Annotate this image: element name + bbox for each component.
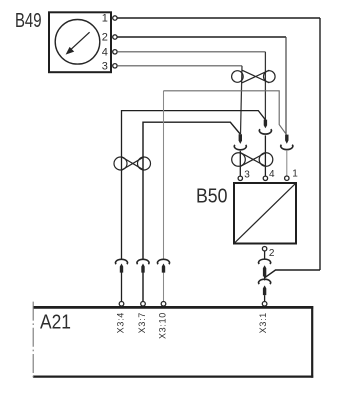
A21 terminal X3:10 xyxy=(161,302,166,307)
svg-text:X3:10: X3:10 xyxy=(157,312,167,339)
component A21 (control unit box) xyxy=(33,306,313,378)
B49 pin 3 number xyxy=(102,60,108,72)
B50 pin 1 terminal xyxy=(285,176,289,180)
A21 left edge (dash-dot continuation line) xyxy=(32,302,34,378)
connector above B50 pin 4 (pin arrow down) xyxy=(264,120,267,129)
connector at A21 X3:7 (socket arc) xyxy=(137,259,149,264)
wire from pin4 socket to B50 pin 4 xyxy=(264,135,266,176)
wire B50 pin2 down to connector xyxy=(264,251,266,260)
X3:1 upper connector socket arc xyxy=(259,259,271,264)
B50 diagonal xyxy=(235,184,296,243)
terminal label X3:4 xyxy=(115,312,125,333)
A21 terminal X3:7 xyxy=(141,302,146,307)
connector at A21 X3:4 (pin arrow up) xyxy=(120,264,123,273)
label B49 xyxy=(15,10,42,32)
wire bottom run of pin1 circuit with diagonal into X3:1 joint xyxy=(265,270,320,278)
wire X3:4 lower vertical to A21 terminal xyxy=(121,272,123,301)
connector above B50 pin 1 (socket arc) xyxy=(281,145,293,150)
B49 pin 4 number xyxy=(102,46,108,58)
wire X3:7 lower vertical to A21 terminal xyxy=(142,272,144,301)
B50 pin 4 label xyxy=(269,169,275,180)
wire B49 pin2 horizontal xyxy=(117,36,286,38)
B49 pin 2 number xyxy=(102,32,108,44)
wire right-edge vertical (B49 pin1 down) xyxy=(319,18,321,270)
B50 pin 2 terminal xyxy=(262,247,266,251)
terminal label X3:7 xyxy=(137,312,147,333)
B50 pin 3 terminal xyxy=(238,176,242,180)
A21 terminal X3:4 xyxy=(119,302,124,307)
svg-text:1: 1 xyxy=(292,169,298,180)
wire X3:10 horizontal run and drop to B50 pin1 connector xyxy=(164,91,287,135)
wire from pin3 socket to B50 pin 3 xyxy=(239,151,241,176)
wire X3:1 to A21 terminal xyxy=(264,295,266,301)
wire B49 pin3 vertical through twist to connector arrow xyxy=(241,66,243,134)
svg-text:3: 3 xyxy=(102,60,108,72)
svg-text:2: 2 xyxy=(102,32,108,44)
X3:1 lower connector pin arrow up xyxy=(263,285,266,295)
svg-text:1: 1 xyxy=(102,13,108,25)
label A21 xyxy=(40,312,71,334)
connector at A21 X3:10 (socket arc) xyxy=(158,259,170,264)
svg-text:3: 3 xyxy=(244,169,250,180)
B50 pin 3 label xyxy=(244,169,250,180)
connector above B50 pin 1 (pin arrow down) xyxy=(285,135,288,144)
svg-text:X3:1: X3:1 xyxy=(258,312,268,333)
svg-text:4: 4 xyxy=(269,169,275,180)
wire X3:10 lower vertical to A21 terminal xyxy=(163,272,165,301)
twisted-pair symbol (left, X3:4/X3:7 pair) xyxy=(114,157,151,170)
connector at A21 X3:7 (pin arrow up) xyxy=(141,264,144,273)
connector above B50 pin 4 (socket arc) xyxy=(259,129,271,134)
B49 pin 4 terminal xyxy=(113,50,117,54)
connector at A21 X3:10 (pin arrow up) xyxy=(162,264,165,273)
B50 pin 2 label xyxy=(269,248,275,259)
component B49 (sender unit box) xyxy=(49,12,111,72)
connector above B50 pin 3 (socket arc) xyxy=(234,145,246,150)
label B50 xyxy=(196,186,228,208)
B49 pin 2 terminal xyxy=(113,35,117,39)
svg-text:B50: B50 xyxy=(196,186,228,208)
B49 gauge circle xyxy=(55,20,100,65)
wire X3:7 upper vertical xyxy=(143,122,240,259)
wire B49 pin4 horizontal xyxy=(117,51,265,53)
svg-text:2: 2 xyxy=(269,248,275,259)
B50 pin 1 label xyxy=(292,169,298,180)
wire B49 pin1 horizontal to right edge xyxy=(117,17,320,19)
svg-text:X3:7: X3:7 xyxy=(137,312,147,333)
svg-text:4: 4 xyxy=(102,46,108,58)
wire X3:10 upper vertical and run to B50 pin1 connector xyxy=(163,91,165,260)
B49 pin 1 number xyxy=(102,13,108,25)
svg-text:A21: A21 xyxy=(40,312,71,334)
B49 needle (arrow inside gauge) xyxy=(66,32,90,54)
terminal label X3:1 xyxy=(258,312,268,333)
component B50 (converter box) xyxy=(234,183,296,244)
X3:1 upper connector pin arrow up xyxy=(263,265,266,276)
B49 pin 1 terminal xyxy=(113,16,117,20)
wire from pin1 socket to B50 pin 1 xyxy=(286,151,288,176)
twisted-pair symbol (above B50, pins 3/4 pair) xyxy=(232,153,273,167)
connector above B50 pin 3 (pin arrow down) xyxy=(239,134,242,144)
svg-text:B49: B49 xyxy=(15,10,42,32)
wire joint segment between X3:1 connectors xyxy=(264,277,266,281)
connector at A21 X3:4 (socket arc) xyxy=(116,259,128,264)
wire B49 pin4 vertical through twist to connector arrow xyxy=(264,52,266,120)
B50 pin 4 terminal xyxy=(263,176,267,180)
svg-text:X3:4: X3:4 xyxy=(115,312,125,333)
wire X3:4 upper vertical xyxy=(122,111,266,260)
wire B49 pin3 horizontal xyxy=(117,65,242,67)
A21 terminal X3:1 xyxy=(262,302,267,307)
twisted-pair symbol (top, B49 pins 3/4) xyxy=(232,70,276,83)
X3:1 lower connector socket arc xyxy=(259,279,271,284)
wire B49 pin2 vertical down to B50 pin1 connector xyxy=(285,37,287,135)
terminal label X3:10 xyxy=(157,312,167,339)
B49 pin 3 terminal xyxy=(113,64,117,68)
